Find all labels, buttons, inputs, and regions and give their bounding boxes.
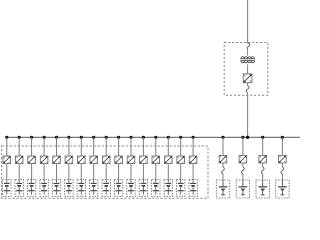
battery string B16 — [189, 180, 197, 197]
inverter U3 — [28, 156, 36, 164]
wire — [222, 174, 224, 180]
wire — [31, 137, 33, 156]
inverter U20 — [279, 155, 287, 163]
battery string B9 — [102, 180, 110, 197]
wire — [281, 163, 283, 167]
node J4 — [43, 136, 46, 139]
wire — [93, 164, 95, 180]
battery string B4 — [40, 180, 48, 197]
wire — [6, 137, 8, 156]
wire — [31, 164, 33, 180]
wire — [43, 137, 45, 156]
battery string B11 — [127, 180, 135, 197]
wire — [118, 137, 120, 156]
inverter U9 — [102, 156, 110, 164]
wire — [242, 163, 244, 167]
battery string B12 — [139, 180, 147, 197]
breaker Q20 — [281, 167, 284, 174]
inverter U8 — [90, 156, 98, 164]
battery string B6 — [65, 180, 73, 197]
inverter U18 — [239, 155, 247, 163]
node J6 — [67, 136, 70, 139]
wire — [242, 137, 244, 155]
wire — [180, 137, 182, 156]
inverter U11 — [127, 156, 135, 164]
wire — [6, 164, 8, 180]
inverter U6 — [65, 156, 73, 164]
inverter U14 — [165, 156, 173, 164]
wire — [262, 174, 264, 180]
wire — [68, 137, 70, 156]
inverter U2 — [15, 156, 23, 164]
node J16 — [192, 136, 195, 139]
battery string B14 — [164, 180, 172, 197]
node J12 — [142, 136, 145, 139]
battery string B18 — [236, 180, 249, 198]
inverter U1 — [3, 156, 11, 164]
node J14 — [167, 136, 170, 139]
substation dashed enclosure — [224, 43, 268, 96]
grid disconnect hook — [247, 43, 250, 48]
wire — [105, 137, 107, 156]
breaker Q17 — [222, 167, 225, 174]
node J19 — [261, 136, 264, 139]
inverter U19 — [259, 155, 267, 163]
wire — [262, 137, 264, 155]
array dashed enclosure — [2, 146, 208, 198]
wire — [93, 137, 95, 156]
node J11 — [129, 136, 132, 139]
wire — [142, 137, 144, 156]
node J1 — [5, 136, 8, 139]
wire — [43, 164, 45, 180]
wire — [130, 164, 132, 180]
inverter U4 — [40, 156, 48, 164]
node feeder junction — [246, 136, 249, 139]
wire — [262, 163, 264, 167]
wire — [56, 137, 58, 156]
wire — [167, 137, 169, 156]
wire — [247, 83, 249, 86]
node J5 — [55, 136, 58, 139]
wire — [155, 137, 157, 156]
inverter U12 — [140, 156, 148, 164]
battery string B1 — [3, 180, 11, 197]
node J13 — [154, 136, 157, 139]
inverter U10 — [115, 156, 123, 164]
node J18 — [241, 136, 244, 139]
node J9 — [105, 136, 108, 139]
wire — [180, 164, 182, 180]
wire — [142, 164, 144, 180]
node J2 — [18, 136, 21, 139]
wire — [167, 164, 169, 180]
wire — [155, 164, 157, 180]
battery string B19 — [256, 180, 269, 198]
battery string B5 — [52, 180, 60, 197]
wire — [247, 64, 249, 74]
battery string B10 — [114, 180, 122, 197]
breaker Q18 — [241, 167, 244, 174]
wire — [247, 48, 249, 55]
battery string B3 — [27, 180, 35, 197]
battery string B13 — [152, 180, 160, 197]
wire — [118, 164, 120, 180]
battery string B7 — [77, 180, 85, 197]
inverter U7 — [78, 156, 86, 164]
wire — [281, 174, 283, 180]
wire — [18, 164, 20, 180]
inverter U15 — [177, 156, 185, 164]
feeder wire from top — [247, 0, 249, 43]
node J3 — [30, 136, 33, 139]
wire — [242, 174, 244, 180]
inverter U13 — [152, 156, 160, 164]
node J15 — [179, 136, 182, 139]
wire — [80, 164, 82, 180]
node J17 — [221, 136, 224, 139]
battery string B15 — [177, 180, 185, 197]
wire — [130, 137, 132, 156]
wire — [281, 137, 283, 155]
wire — [68, 164, 70, 180]
wire — [80, 137, 82, 156]
inverter U0 — [243, 74, 252, 83]
wire — [222, 137, 224, 155]
main bus — [6, 136, 301, 138]
wire — [18, 137, 20, 156]
breaker Q0 — [246, 86, 249, 93]
battery string B8 — [90, 180, 98, 197]
node J20 — [281, 136, 284, 139]
wire — [105, 164, 107, 180]
wire — [56, 164, 58, 180]
wire — [192, 164, 194, 180]
wire — [192, 137, 194, 156]
inverter U17 — [219, 155, 227, 163]
wire — [222, 163, 224, 167]
battery string B20 — [276, 180, 289, 198]
inverter U16 — [189, 156, 197, 164]
breaker Q19 — [261, 167, 264, 174]
wire to bus — [247, 93, 249, 138]
battery string B2 — [15, 180, 23, 197]
inverter U5 — [53, 156, 61, 164]
node J8 — [92, 136, 95, 139]
transformer T1 — [240, 57, 254, 63]
node J7 — [80, 136, 83, 139]
node J10 — [117, 136, 120, 139]
battery string B17 — [216, 180, 229, 198]
